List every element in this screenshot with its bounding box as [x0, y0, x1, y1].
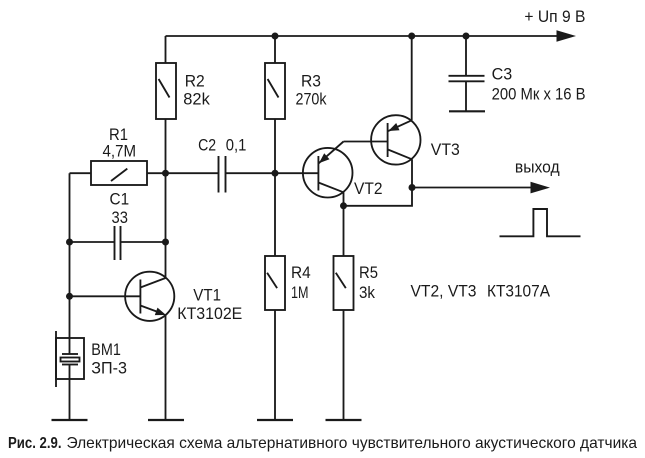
- junction C1 left: [66, 239, 73, 246]
- wire R3 bottom to R4: [274, 119, 276, 256]
- pulse waveform: [500, 209, 581, 236]
- ground R4: [257, 419, 293, 421]
- wire left vertical (R1/C1/VT1 base/BM1): [69, 173, 71, 354]
- junction VT1 base: [66, 293, 73, 300]
- label R2 82k: [183, 72, 210, 109]
- wire R2 top: [165, 36, 167, 63]
- ground R5: [326, 419, 362, 421]
- label VT2, VT3 KT3107A: [411, 282, 551, 301]
- label VT1 KT3102E: [177, 286, 242, 323]
- wire VT2 emitter to VT3 base: [344, 141, 388, 143]
- ground BM1: [52, 419, 88, 421]
- label C1 33: [110, 190, 130, 227]
- capacitor C3: [449, 36, 485, 111]
- wire collector link down-left: [344, 188, 413, 206]
- transistor VT3: [371, 115, 420, 164]
- wire VT3 emitter to rail: [411, 36, 413, 120]
- junction R3/rail: [272, 33, 279, 40]
- transistor VT1: [125, 272, 174, 321]
- resistor R5: [334, 256, 354, 310]
- wire R4 bottom: [274, 310, 276, 420]
- output arrow: [531, 182, 551, 194]
- label R5 3k: [359, 263, 378, 302]
- wire main left to R1: [70, 172, 92, 174]
- ground VT1 emitter: [148, 419, 184, 421]
- junction R3/main wire: [272, 170, 279, 177]
- label C2 0,1: [198, 136, 246, 155]
- wire C1 right: [121, 241, 166, 243]
- svg-text:Рис. 2.9.: Рис. 2.9.: [8, 435, 62, 452]
- microphone BM1: [56, 331, 84, 387]
- power arrow: [557, 30, 577, 41]
- transistor VT2: [303, 142, 353, 206]
- wire top power rail: [166, 35, 558, 37]
- capacitor C2: [219, 156, 226, 193]
- junction output: [409, 184, 416, 191]
- junction C3/rail: [463, 33, 470, 40]
- resistor R2: [156, 63, 176, 119]
- capacitor C1: [115, 226, 121, 260]
- resistor R3: [265, 63, 285, 119]
- wire R3 top: [274, 36, 276, 63]
- resistor R4: [265, 256, 285, 310]
- junction R5/VT2 collector: [340, 202, 347, 209]
- wire R5 top: [343, 206, 345, 256]
- label C3 200Mk: [492, 65, 586, 104]
- svg-text:Электрическая схема альтернати: Электрическая схема альтернативного чувс…: [67, 435, 638, 452]
- ground C3: [449, 110, 485, 112]
- wire VT1 base: [70, 295, 141, 297]
- wire output: [412, 187, 531, 189]
- label R3 270k: [296, 72, 327, 109]
- wire R5 bottom: [343, 310, 345, 420]
- wire R2 bottom to VT1 collector: [165, 119, 167, 278]
- resistor R1: [91, 161, 147, 185]
- wire VT3 collector down: [411, 159, 413, 187]
- junction R2/main wire: [162, 170, 169, 177]
- junction VT3/rail: [408, 33, 415, 40]
- junction C1 right: [162, 239, 169, 246]
- label R1 4,7M: [103, 125, 137, 161]
- label BM1 3P-3: [91, 340, 127, 377]
- wire C1 left: [70, 241, 115, 243]
- wire VT1 emitter down: [165, 315, 167, 420]
- label R4 1M: [291, 263, 311, 302]
- wire C2 to VT2 base: [226, 172, 319, 174]
- wire R1 to C2: [147, 172, 219, 174]
